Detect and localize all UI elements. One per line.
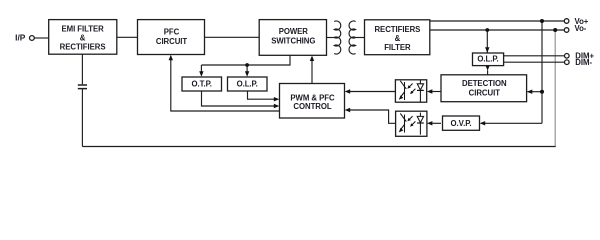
svg-text:RECTIFIERS: RECTIFIERS: [374, 25, 420, 34]
svg-text:Vo-: Vo-: [575, 24, 587, 33]
svg-text:RECTIFIERS: RECTIFIERS: [60, 42, 106, 51]
svg-text:EMI FILTER: EMI FILTER: [61, 24, 104, 33]
svg-text:CIRCUIT: CIRCUIT: [156, 37, 188, 46]
svg-text:O.V.P.: O.V.P.: [451, 119, 472, 128]
svg-text:POWER: POWER: [279, 27, 309, 36]
svg-text:&: &: [80, 33, 86, 42]
svg-text:O.L.P.: O.L.P.: [237, 79, 258, 88]
svg-text:PFC: PFC: [164, 28, 180, 37]
svg-text:CONTROL: CONTROL: [293, 102, 331, 111]
svg-text:DETECTION: DETECTION: [462, 79, 507, 88]
svg-text:&: &: [395, 34, 401, 43]
svg-text:CIRCUIT: CIRCUIT: [469, 89, 501, 98]
svg-text:O.T.P.: O.T.P.: [192, 79, 212, 88]
svg-text:FILTER: FILTER: [384, 43, 411, 52]
svg-text:DIM-: DIM-: [575, 58, 592, 67]
svg-text:O.L.P.: O.L.P.: [477, 55, 498, 64]
svg-text:I/P: I/P: [15, 33, 26, 43]
svg-text:SWITCHING: SWITCHING: [271, 36, 315, 45]
